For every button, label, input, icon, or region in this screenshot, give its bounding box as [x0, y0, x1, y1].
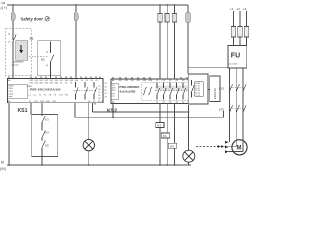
svg-text:M: M: [1, 161, 4, 165]
wire branch 3: [173, 5, 175, 79]
contact S1: [51, 42, 54, 76]
pin stubs KS2 top: [113, 77, 187, 79]
wire A2 to 0V: [8, 103, 10, 165]
dashed link contacts: [74, 90, 96, 92]
svg-text:21: 21: [8, 34, 11, 36]
svg-text:13: 13: [46, 52, 49, 54]
wire coil bus: [75, 103, 224, 118]
fuse F5: [172, 14, 176, 23]
KS1 inner info box: [7, 84, 27, 99]
node L+ rail: [7, 4, 188, 6]
op module KS2 box: [111, 79, 190, 104]
wire to FU: [188, 66, 228, 68]
svg-text:33: 33: [105, 97, 107, 99]
wire contactor line3: [173, 104, 175, 144]
label column KS1 right: [98, 86, 100, 100]
dashed mech line motor: [196, 146, 225, 148]
actuator cam hatched: [16, 41, 28, 60]
wire KS2 A2 stub: [112, 104, 114, 118]
wire L+ drop to safety door: [12, 5, 14, 40]
terminal box vertical: [210, 76, 220, 102]
link to terminal box: [208, 89, 210, 91]
wire contactor line1 lower: [159, 128, 161, 166]
svg-text:42: 42: [101, 101, 104, 103]
enclosure S1 box: [38, 41, 61, 76]
junctions on 0V: [8, 164, 175, 166]
svg-text:(-): (-): [29, 94, 31, 96]
svg-text:B2: B2: [41, 57, 45, 61]
coil K4: [161, 133, 169, 138]
svg-text:KS1: KS1: [219, 87, 225, 91]
labels KS2 info: [112, 85, 117, 97]
contact K4 aux: [42, 131, 45, 141]
svg-text:PSR-SOCA/ESA/1/B: PSR-SOCA/ESA/1/B: [30, 87, 61, 91]
pin stubs KS1 bottom: [42, 103, 95, 105]
svg-text:1a: 1a: [1, 1, 5, 5]
contact K5 aux: [42, 141, 45, 157]
wire bus y112: [93, 111, 189, 113]
svg-text:24: 24: [105, 93, 107, 95]
wire contactor line2 lower: [166, 138, 168, 165]
grey band contacts: [156, 85, 190, 90]
fuse L2: [238, 27, 242, 38]
labels KS1 info: [8, 86, 15, 98]
svg-text:KS1: KS1: [18, 108, 28, 114]
fuse F2: [74, 12, 78, 20]
svg-text:(+): (+): [34, 94, 37, 96]
svg-text:23: 23: [105, 90, 107, 92]
svg-text:KS2: KS2: [219, 108, 225, 112]
label 1a (L+): [1, 1, 8, 10]
svg-text:33: 33: [98, 98, 100, 100]
labels aux pins: [195, 82, 200, 97]
fuse F6: [186, 12, 191, 23]
svg-text:K5: K5: [45, 143, 49, 147]
wire switch to module: [12, 43, 14, 79]
svg-text:13: 13: [105, 83, 107, 85]
svg-text:PSR-URM30X: PSR-URM30X: [119, 85, 140, 89]
svg-text:(0V): (0V): [0, 167, 6, 171]
svg-text:circuit brkr: circuit brkr: [229, 63, 239, 66]
svg-text:14: 14: [46, 65, 49, 67]
coil K5: [168, 143, 176, 148]
fuse F3: [158, 14, 162, 23]
fuse L1: [231, 27, 235, 38]
wire branch 2: [166, 5, 168, 79]
contacts KS2 main: [230, 105, 247, 112]
wire L1: [233, 11, 235, 46]
labels KS2 top pins: [112, 79, 191, 82]
svg-text:13: 13: [98, 86, 100, 88]
contacts KS1 internal: [76, 82, 97, 100]
svg-text:22: 22: [8, 42, 11, 44]
svg-text:KS2: KS2: [107, 108, 117, 114]
wire L3: [246, 11, 248, 46]
wire T1: [229, 68, 231, 142]
label PSR type 2: [119, 85, 140, 93]
coil K3: [156, 123, 164, 128]
wire L+ drop mid: [75, 5, 77, 79]
enclosure feedback box: [32, 115, 58, 157]
inner box aux: [195, 82, 204, 97]
wire lamp1 bottom: [88, 151, 90, 165]
KS2 inner info box: [111, 84, 119, 100]
svg-text:L1: L1: [230, 7, 234, 11]
wire lamp2 top: [188, 105, 190, 150]
contact aux: [192, 80, 195, 98]
pin stubs KS1 top: [9, 76, 100, 79]
breaker FU box: [228, 46, 247, 69]
labels between modules: [105, 83, 107, 99]
dashed contact box KS2: [142, 82, 192, 100]
wire lamp1 top: [88, 103, 90, 140]
svg-text:K3: K3: [45, 117, 49, 121]
labels KS1 second row: [30, 83, 74, 85]
wire feedback top: [41, 103, 43, 116]
wire stub pin11: [30, 103, 32, 115]
motor terminals: [225, 141, 228, 153]
fuse L3: [244, 27, 248, 38]
arrow actuator: [19, 45, 23, 54]
enclosure B1 dashed box: [5, 29, 31, 76]
wire feedback bottom: [41, 157, 43, 166]
wire lamp2 bottom: [188, 162, 190, 165]
svg-text:actuator: actuator: [12, 64, 20, 67]
motor M: [232, 140, 247, 155]
wire pin75 link: [92, 103, 94, 112]
svg-text:relay: relay: [8, 95, 12, 98]
label Safety door: [21, 16, 44, 21]
symbol door circle: [45, 17, 49, 21]
wire contactor line2: [166, 104, 168, 134]
svg-text:23: 23: [98, 92, 100, 94]
wire T3: [229, 68, 244, 152]
svg-text:24VDC/2A: 24VDC/2A: [214, 88, 217, 99]
node 0V rail: [7, 164, 191, 166]
labels KS1 mid row: [29, 94, 69, 96]
svg-text:FU: FU: [231, 53, 240, 60]
svg-text:unit: unit: [112, 94, 115, 97]
labels KS1 top pins: [8, 79, 99, 82]
svg-text:24: 24: [98, 95, 100, 97]
contact K3 aux: [42, 116, 45, 131]
svg-text:(L+): (L+): [1, 6, 8, 10]
op module KS1 box: [7, 79, 103, 103]
switch S-door contact: [13, 33, 16, 43]
wire rail end drop: [187, 5, 189, 74]
node junction dots on rail: [12, 4, 175, 6]
svg-text:14: 14: [98, 89, 100, 91]
dashed link KS2 contacts: [155, 90, 189, 92]
fuse F4: [165, 14, 169, 23]
mech link dashed: [29, 56, 49, 58]
labels KS1 bottom pins: [8, 100, 104, 103]
labels KS2 bottom pins: [112, 100, 191, 103]
svg-text:K5: K5: [170, 144, 174, 148]
wire L2: [239, 11, 241, 46]
label M (0V): [0, 161, 6, 172]
contacts KS2 internal: [157, 83, 191, 100]
wire contactor line1: [159, 104, 161, 123]
wire T2: [229, 68, 237, 147]
wire contactor line3 lower: [173, 148, 175, 165]
svg-text:Safety door: Safety door: [21, 16, 44, 21]
svg-text:B1: B1: [30, 36, 34, 40]
fuse F1: [11, 12, 15, 20]
aux block right: [188, 74, 208, 104]
svg-text:safety: safety: [8, 92, 13, 95]
svg-text:14: 14: [105, 86, 107, 88]
svg-text:M: M: [237, 145, 242, 151]
svg-text:Y1 Y2: Y1 Y2: [195, 95, 200, 97]
changeover jumpers: [143, 87, 152, 95]
svg-text:4x1/2x2/3B: 4x1/2x2/3B: [119, 89, 136, 93]
labels L1 L2 L3: [230, 7, 247, 11]
wire branch 1: [159, 5, 161, 79]
lamp H2: [183, 150, 195, 162]
svg-text:K4: K4: [163, 134, 167, 138]
contacts KS1 main: [230, 84, 247, 91]
actuator base plate: [14, 61, 24, 63]
lamp H1: [83, 139, 94, 150]
svg-text:K4: K4: [45, 130, 49, 134]
svg-text:K3: K3: [157, 124, 161, 128]
svg-text:L3: L3: [243, 7, 247, 11]
svg-text:L2: L2: [237, 7, 241, 11]
